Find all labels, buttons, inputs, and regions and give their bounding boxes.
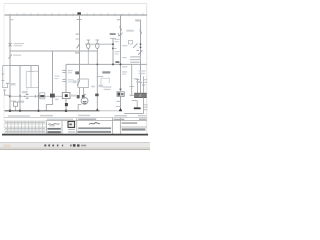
title block bottom border (dark) (2, 134, 148, 136)
dark marks left of W13 at y62 (115, 61, 119, 63)
fuse F2 squiggle on W13 (119, 27, 121, 31)
junction dot W1/B3 (9, 110, 12, 113)
tick on W14 (129, 86, 134, 88)
switch S3 on W8 (77, 44, 80, 48)
relay box K2 (78, 79, 88, 88)
right cells text (114, 119, 147, 131)
wire W10 (rail y=44.2) (85, 43, 113, 45)
power bus B1 (top rail) (5, 14, 148, 16)
tick on W8 (76, 38, 80, 40)
wire W4 (x=38.5) (38, 66, 40, 112)
wire stub L1 to bus B2b (87, 51, 89, 64)
connector X6 on W5 (24, 94, 28, 98)
labels right of W12 (115, 39, 120, 55)
junction dot W2/W5 (19, 95, 21, 97)
wire W5 (connector row y=96.3) (10, 95, 62, 97)
switch inside K2 (77, 80, 79, 86)
relay contact cluster K3 (129, 41, 133, 45)
bus B2a (mid rail left segment) (10, 65, 39, 67)
wire W14 (x=131.7 drop) (131, 64, 133, 95)
labels right of W13 (122, 45, 127, 75)
wire W11 (x=97.3 down) (96, 51, 98, 110)
title block frame (4, 117, 147, 119)
wire W1 (left column x=10) (9, 15, 11, 111)
junction dot W4/W5 (38, 95, 40, 97)
labels below B2b right (139, 70, 146, 74)
junction dot W1/W5 (9, 95, 11, 97)
drawing frame border (4, 4, 147, 135)
ground G1 (132, 101, 138, 108)
wire W3 (x=31 drop into box K1) (30, 66, 32, 72)
text block right annotation (130, 56, 141, 63)
wire W13 (x=120.5) (120, 15, 122, 90)
switch S2 on W1 (9, 54, 13, 58)
label left of K2 (73, 80, 77, 83)
connector box X2 (62, 93, 70, 99)
stem above M1 (83, 94, 86, 98)
lamp L1 (87, 43, 90, 48)
legs below K2 (80, 88, 84, 95)
labels for W7 (68, 70, 74, 83)
bus B2b (mid rail right segment) (66, 63, 147, 65)
wire below K1 (26, 88, 28, 95)
wire below X2 (65, 99, 67, 111)
wire W7 (x=66) (65, 64, 67, 92)
junction dot W11/B2b (96, 64, 98, 66)
fuse F3 squiggle on W15 (139, 30, 141, 34)
dark label left of W13 (110, 33, 116, 35)
label left of F3 (126, 30, 134, 32)
ground bus B3 (bottom rail) (5, 110, 100, 112)
bus B1 junction ticks (10, 13, 143, 16)
wire W8 (x=79.5 from bus to relay K2) (79, 15, 81, 79)
connector pin cluster into X4 (138, 76, 144, 93)
approval text rows (dark) (47, 128, 60, 130)
label for W11 (99, 85, 103, 88)
wire to left margin from bus B2 (3, 65, 10, 67)
junction dot W13/B2b (120, 63, 122, 65)
connector box X3 (117, 92, 124, 97)
label on W1 (11, 83, 16, 85)
lamp L2 (96, 43, 99, 48)
warm smudge on status bar (4, 145, 11, 148)
junction dot W7/B3 (65, 110, 68, 113)
label left of M1 stem (71, 95, 77, 97)
branch tick on W11 (97, 76, 103, 78)
arrow head on W13 (119, 89, 122, 92)
note text row above title block (8, 115, 146, 117)
connector marks below bus on W8 (77, 18, 82, 20)
signature scribble 2 (89, 123, 100, 125)
connector X7 (dark) on W5/W6 (50, 94, 55, 98)
fuse ticks on left stub (2, 74, 10, 83)
status bar text (44, 144, 86, 146)
connector ticks on W7 (62, 70, 66, 81)
junction dots on W12 (112, 43, 114, 45)
left margin stub wire (3, 66, 8, 88)
label above W15 (135, 19, 140, 21)
junction dot W4/B3 (37, 110, 39, 112)
wire W2 (x=20) (19, 66, 21, 112)
connector blob on W11 (95, 94, 98, 97)
terminal tick on W1 (10, 19, 14, 21)
labels along W6 (55, 76, 60, 101)
wire below X3 (120, 96, 122, 111)
text under logo (68, 129, 75, 133)
wire W12 (x=113) (112, 38, 114, 64)
T tick below bus on W13 (117, 19, 121, 21)
motor M1 (81, 98, 88, 105)
wire M1 to B3 (78, 104, 81, 110)
tick on W5 (34, 95, 36, 98)
ticks on lower W13 (116, 101, 121, 106)
label for S1 (14, 43, 25, 46)
branch with component X5 from W1 (10, 101, 16, 102)
component symbol on W13 (118, 33, 122, 37)
label left dark at y71 (102, 71, 110, 73)
T end of W14 (130, 94, 134, 96)
T-bar top of W12 (110, 37, 116, 39)
logo box (68, 121, 75, 127)
connector blobs below K2 (77, 95, 80, 98)
fuse label F1 (dark) (77, 12, 81, 14)
junction blob W11/B3 (96, 108, 99, 111)
component outline X8 (101, 78, 109, 84)
signature scribble 1 (48, 124, 60, 125)
switch S1 on W1 (9, 43, 12, 46)
status bar (0, 143, 150, 151)
junction dot W2/B3 (19, 110, 21, 112)
label for S2 (13, 55, 21, 56)
wire W15 (right column x=140.5) (140, 20, 142, 80)
label under X8 (103, 86, 111, 90)
component blob on W7 lower (65, 103, 68, 106)
component box K1 (26, 71, 38, 87)
revision table text (5, 122, 45, 133)
terminal label 30 (dark) (75, 71, 79, 74)
title text center rows (78, 119, 112, 133)
ground stub G2 (3, 90, 9, 96)
contact S4 on W15 (136, 50, 142, 55)
wire W9 (rail y=51) (10, 50, 97, 52)
wire below X4 (124, 98, 144, 114)
connector X1 on W5 (40, 93, 45, 99)
junction blob W13/B3 (119, 108, 123, 111)
component box X4 (dark) (135, 93, 147, 97)
wire W6 (x=52.5 from y51 branch) (52, 51, 54, 94)
label for W2 (22, 91, 28, 93)
label at right margin (144, 104, 147, 110)
tick on W3 (29, 71, 34, 73)
title block dividers (46, 118, 120, 135)
revision table (4, 121, 46, 133)
